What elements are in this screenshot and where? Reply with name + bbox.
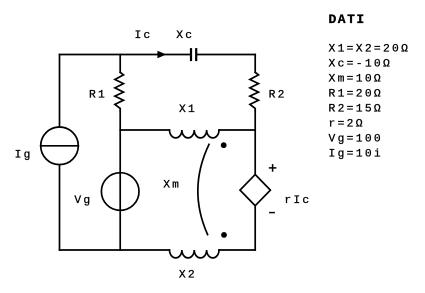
dependent source rIc diamond: [240, 175, 270, 206]
wire middle vertical top: [119, 55, 121, 73]
svg-text:R2=15Ω: R2=15Ω: [329, 104, 383, 116]
svg-text:X1: X1: [179, 104, 197, 116]
current arrow Ic: [157, 51, 166, 59]
wire X1 left lead: [120, 129, 169, 131]
voltage source Vg bar: [119, 173, 121, 210]
svg-text:Xc=-10Ω: Xc=-10Ω: [329, 59, 393, 71]
svg-text:Ic: Ic: [135, 30, 153, 42]
resistor R2: [250, 72, 259, 111]
current source Ig bar: [41, 145, 79, 147]
svg-text:Ig: Ig: [15, 150, 33, 162]
inductor X1: [170, 130, 220, 138]
svg-text:Xm=10Ω: Xm=10Ω: [329, 74, 383, 86]
coupling arc Xm: [198, 144, 209, 234]
svg-text:DATI: DATI: [329, 12, 366, 27]
svg-text:Ig=10i: Ig=10i: [329, 149, 383, 161]
svg-text:Vg: Vg: [74, 195, 92, 207]
svg-text:X2: X2: [179, 269, 197, 281]
svg-text:Xm: Xm: [163, 180, 181, 192]
resistor R1: [115, 72, 124, 111]
wire bottom right segment: [219, 249, 255, 251]
wire middle vertical mid: [119, 111, 121, 173]
svg-text:R2: R2: [269, 90, 287, 102]
wire right vertical upper: [254, 55, 256, 73]
svg-text:Xc: Xc: [176, 30, 194, 42]
coupling dot upper: [221, 142, 227, 148]
wire left vertical lower: [59, 165, 61, 250]
wire X1 right lead: [219, 129, 255, 131]
coupling dot lower: [221, 232, 227, 238]
wire right vertical lower: [254, 206, 256, 250]
current source Ig circle: [41, 127, 79, 165]
wire top right segment: [197, 54, 255, 56]
wire left vertical upper: [59, 55, 61, 128]
minus sign: [269, 212, 275, 214]
svg-text:r=2Ω: r=2Ω: [329, 119, 365, 131]
inductor X2: [170, 250, 220, 258]
svg-text:R1=20Ω: R1=20Ω: [329, 89, 383, 101]
wire middle vertical bottom: [119, 210, 121, 250]
wire bottom left segment: [60, 249, 170, 251]
voltage source Vg circle: [101, 173, 139, 211]
svg-text:rIc: rIc: [284, 195, 311, 207]
wire top left segment: [60, 54, 190, 56]
capacitor Xc plates: [191, 48, 196, 61]
svg-text:R1: R1: [89, 90, 107, 102]
wire right vertical middle: [254, 111, 256, 175]
svg-text:X1=X2=20Ω: X1=X2=20Ω: [329, 44, 411, 56]
svg-text:Vg=100: Vg=100: [329, 134, 383, 146]
plus sign: [269, 164, 277, 172]
